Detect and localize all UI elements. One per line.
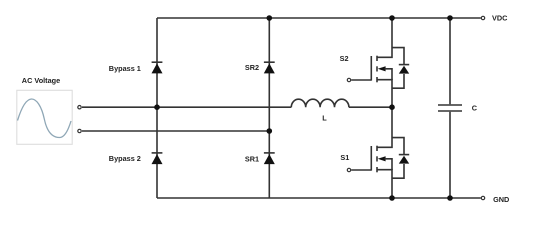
svg-text:S1: S1 [340, 153, 349, 162]
svg-text:SR1: SR1 [245, 155, 259, 164]
diode Bypass 1 [152, 62, 163, 73]
junction: SR rail to bottom AC line [267, 128, 273, 134]
svg-text:C: C [472, 103, 478, 112]
voltage source V1 (AC) box [17, 90, 72, 144]
voltage source V1 sine waveform [18, 99, 72, 138]
capacitor C [438, 18, 462, 198]
wire: inductor to switch midpoint node [349, 106, 392, 108]
svg-text:Bypass 2: Bypass 2 [109, 154, 141, 163]
terminal GND [481, 196, 484, 199]
wire: bottom rail (GND bus) [157, 197, 481, 199]
svg-text:VDC: VDC [492, 13, 508, 22]
terminal VDC [481, 16, 484, 19]
terminal of V1 (top) [78, 106, 81, 109]
wire: bypass rail vertical [156, 18, 158, 198]
transistor S1 (low-side MOSFET) [347, 107, 409, 198]
junction: S2 drain to top rail [389, 15, 395, 21]
junction: capacitor to bottom rail [447, 195, 453, 201]
svg-text:SR2: SR2 [245, 63, 259, 72]
wire: bottom AC line from V1 to SR rail [82, 130, 269, 132]
wire: top rail (VDC bus) [157, 17, 481, 19]
svg-text:Bypass 1: Bypass 1 [109, 64, 141, 73]
svg-text:AC Voltage: AC Voltage [22, 76, 60, 85]
junction: S1 source to bottom rail [389, 195, 395, 201]
diode SR1 [264, 153, 275, 164]
junction: bypass rail to top AC line [154, 104, 160, 110]
wire: SR rail vertical [268, 18, 270, 198]
wire: top AC line from V1 to inductor [82, 106, 291, 108]
junction: capacitor to top rail [447, 15, 453, 21]
junction: SR rail to top rail [267, 15, 273, 21]
transistor S2 (high-side MOSFET) [347, 18, 409, 107]
diode Bypass 2 [152, 153, 163, 164]
diode SR2 [264, 62, 275, 73]
inductor L [291, 99, 349, 107]
svg-text:L: L [322, 114, 327, 123]
svg-text:S2: S2 [340, 54, 349, 63]
svg-text:GND: GND [493, 195, 509, 204]
junction: switch midpoint node [389, 104, 395, 110]
terminal of V1 (bottom) [78, 129, 81, 132]
